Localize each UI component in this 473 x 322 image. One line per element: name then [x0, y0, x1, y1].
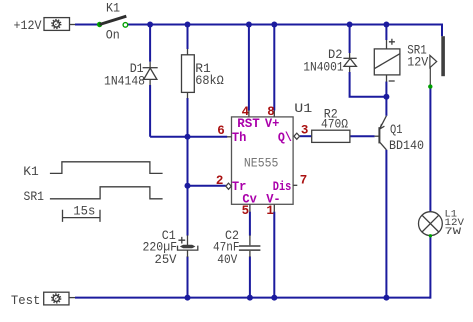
- lamp L1: [419, 212, 443, 236]
- pin 4 stub: [248, 111, 250, 117]
- R1 stubs: [187, 49, 189, 98]
- svg-text:3: 3: [301, 124, 309, 138]
- svg-text:12V: 12V: [407, 55, 428, 70]
- svg-text:Test: Test: [11, 293, 41, 308]
- capacitor C1: [178, 235, 198, 257]
- relay SR1 coil: [374, 39, 400, 81]
- junction top rail R1: [185, 22, 191, 28]
- junction top rail pin8: [271, 22, 277, 28]
- transistor Q1 emitter: [380, 116, 387, 129]
- svg-text:8: 8: [267, 105, 275, 119]
- switch K1 closed contact dot: [97, 22, 102, 27]
- wire Tr pin2 horizontal: [188, 185, 226, 187]
- pin 7 stub: [293, 184, 297, 186]
- svg-text:Q\: Q\: [278, 131, 292, 145]
- svg-text:+12V: +12V: [14, 18, 42, 33]
- capacitor C2: [239, 235, 261, 257]
- svg-text:40V: 40V: [217, 252, 237, 267]
- svg-text:SR1: SR1: [24, 189, 45, 204]
- svg-text:2: 2: [216, 174, 224, 188]
- pin 6 stub: [227, 136, 232, 138]
- svg-text:6: 6: [217, 124, 225, 138]
- wire +12V terminal to switch: [75, 24, 98, 26]
- pin 3 inverted diamond: [294, 133, 300, 139]
- svg-text:On: On: [106, 27, 120, 42]
- svg-text:1: 1: [266, 204, 274, 218]
- pin 1 stub: [273, 204, 275, 212]
- svg-text:7: 7: [300, 173, 308, 187]
- pin 2 inverted diamond: [226, 183, 232, 189]
- wire relay coil branch: [385, 25, 387, 97]
- svg-text:BD140: BD140: [389, 138, 424, 153]
- transistor Q1 emitter arrow: [380, 124, 384, 129]
- junction top rail D2: [347, 22, 353, 28]
- junction node Tr: [185, 183, 191, 189]
- lamp bottom connection dot: [429, 234, 432, 237]
- svg-text:Q1: Q1: [390, 122, 403, 137]
- junction top rail pin4: [246, 22, 252, 28]
- wire node Th pin6 horizontal: [150, 136, 227, 138]
- svg-text:5: 5: [242, 204, 250, 218]
- svg-text:1N4148: 1N4148: [104, 74, 145, 89]
- resistor R2: [312, 130, 350, 142]
- terminal +12V screw: [52, 20, 61, 29]
- wire pin3 to R2: [300, 135, 312, 137]
- junction top rail D1: [147, 22, 153, 28]
- transistor Q1 base bar: [378, 127, 380, 143]
- wire lamp to bottom rail: [429, 236, 430, 298]
- waveform K1 trace: [50, 162, 163, 174]
- svg-text:7W: 7W: [445, 226, 462, 238]
- transistor Q1 collector: [380, 142, 387, 149]
- transistor Q1 base stub: [375, 135, 379, 137]
- switch K1 lever: [100, 16, 127, 24]
- wire Q1 emitter up: [385, 97, 387, 116]
- wire pin8 vertical: [273, 25, 275, 111]
- wire Q1 collector down: [385, 150, 387, 298]
- wire D1 branch vertical: [149, 25, 151, 137]
- wire D2 anode to relay node: [350, 72, 387, 97]
- svg-text:68kΩ: 68kΩ: [195, 73, 224, 88]
- junction node Th: [185, 134, 191, 140]
- wire pin1 vertical: [273, 212, 275, 298]
- svg-text:NE555: NE555: [244, 156, 279, 170]
- relay coil stubs: [386, 40, 388, 82]
- relay SR1 contact bar: [441, 36, 445, 76]
- svg-text:470Ω: 470Ω: [321, 116, 348, 131]
- relay SR1 actuator arrow: [430, 55, 437, 67]
- wire top +12V rail: [128, 25, 442, 37]
- wire relay contact to lamp: [429, 87, 431, 212]
- junction top rail relay: [383, 22, 389, 28]
- diode D2: [343, 53, 356, 72]
- svg-text:1N4001: 1N4001: [303, 60, 344, 75]
- svg-text:K1: K1: [23, 164, 39, 179]
- junction bottom rail Q1: [383, 295, 389, 301]
- svg-text:U1: U1: [294, 101, 312, 116]
- svg-text:15s: 15s: [73, 204, 95, 219]
- resistor R1: [182, 55, 195, 93]
- junction bottom rail C2: [247, 295, 253, 301]
- svg-text:Th: Th: [232, 131, 247, 145]
- switch K1 open contact circle: [123, 23, 128, 28]
- pin 5 stub: [249, 204, 251, 212]
- wire R2 to Q1 base: [350, 135, 375, 137]
- junction bottom rail pin1: [271, 295, 277, 301]
- svg-text:25V: 25V: [155, 252, 177, 267]
- IC U1 NE555 box: [232, 117, 294, 204]
- junction bottom rail C1: [185, 295, 191, 301]
- wire bottom Test rail: [75, 297, 430, 299]
- wire R1 branch vertical with C1 gap: [187, 25, 189, 298]
- junction relay emitter node: [383, 94, 389, 100]
- terminal +12V box: [44, 18, 75, 31]
- terminal Test box: [44, 292, 75, 305]
- wire D2 branch vertical: [349, 25, 351, 54]
- dimension 15s ticks: [63, 210, 101, 222]
- svg-text:K1: K1: [106, 1, 120, 16]
- waveform SR1 trace: [50, 187, 163, 199]
- relay contact connection dot: [428, 84, 432, 88]
- relay SR1 contact lever: [429, 68, 431, 85]
- wire pin4 vertical: [248, 25, 250, 111]
- diode D1: [143, 62, 158, 85]
- terminal Test screw: [52, 294, 61, 303]
- pin 8 stub: [273, 111, 275, 117]
- wire pin5 vertical with C2 gap: [249, 212, 251, 298]
